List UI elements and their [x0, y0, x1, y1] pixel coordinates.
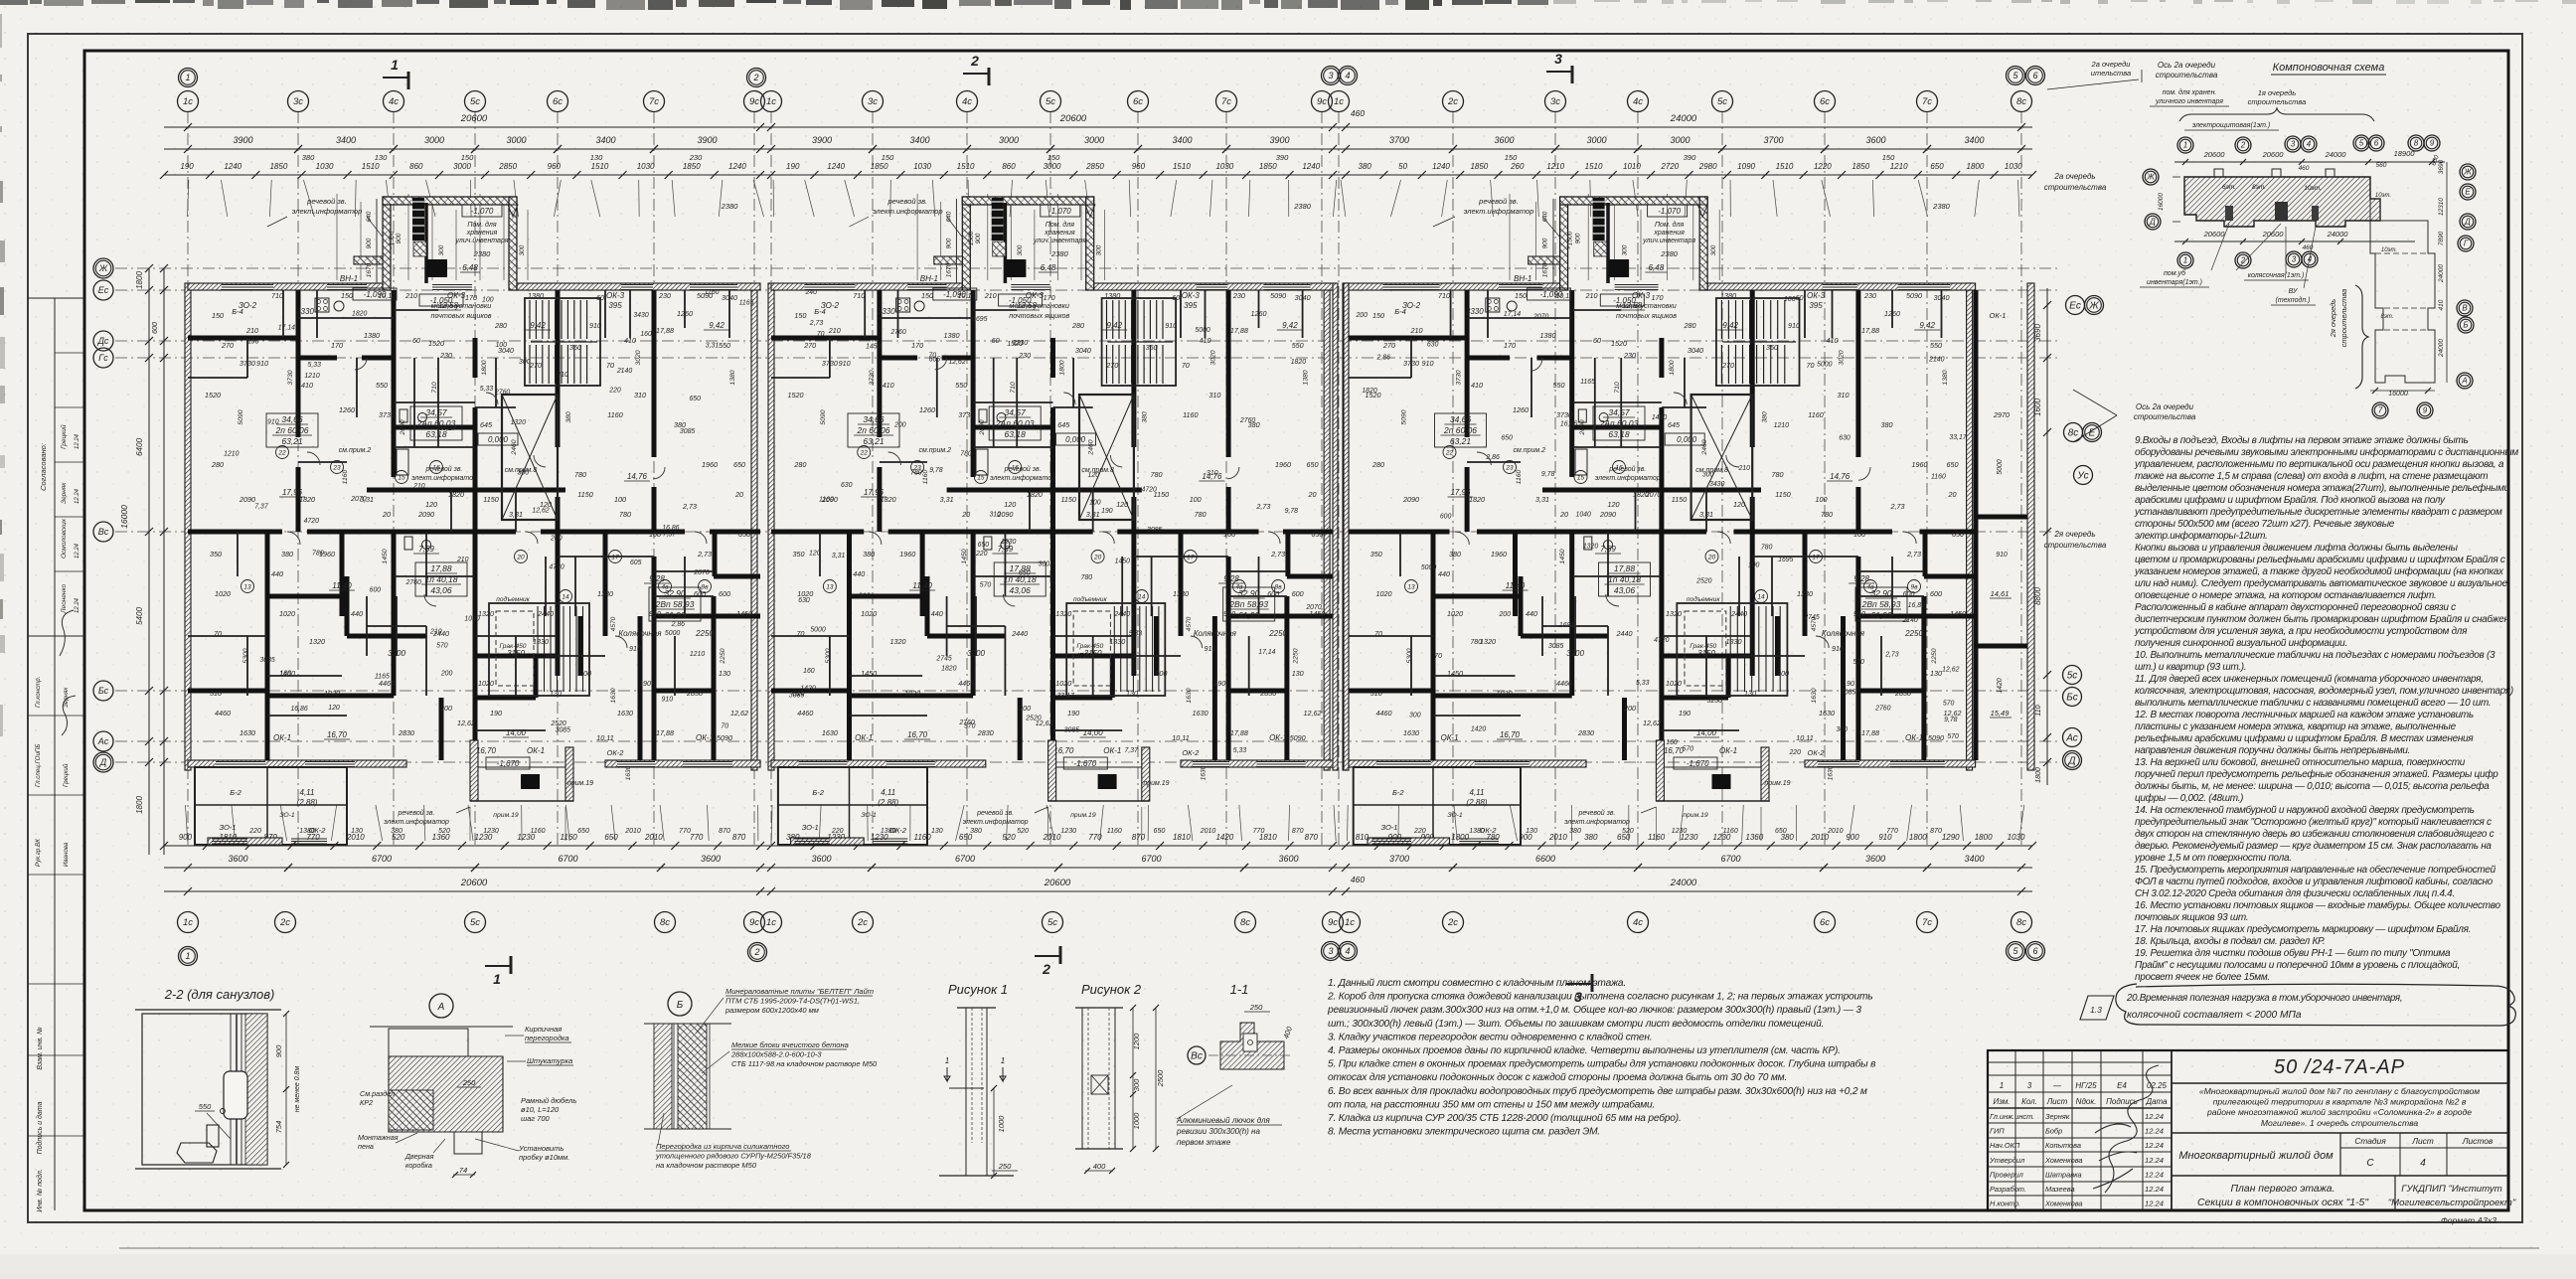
- svg-text:460: 460: [1351, 875, 1365, 884]
- svg-text:0,000: 0,000: [1065, 435, 1086, 444]
- svg-text:130: 130: [375, 153, 388, 162]
- bottom scan artifact line: [119, 1247, 2539, 1249]
- svg-text:380: 380: [1762, 411, 1769, 423]
- svg-text:Д: Д: [2149, 218, 2156, 227]
- svg-text:пластины с указанием номера эт: пластины с указанием номера этажа, кварт…: [2135, 721, 2457, 732]
- svg-text:Монтажная: Монтажная: [358, 1133, 399, 1142]
- svg-text:(2,88): (2,88): [878, 798, 898, 807]
- svg-text:6700: 6700: [558, 854, 577, 864]
- svg-text:2520: 2520: [1025, 716, 1041, 722]
- svg-text:Д: Д: [2067, 755, 2075, 766]
- svg-text:1040: 1040: [1576, 512, 1591, 519]
- svg-text:1510: 1510: [1776, 162, 1794, 171]
- svg-text:1330: 1330: [597, 589, 613, 598]
- svg-text:860: 860: [1002, 162, 1016, 171]
- svg-text:710: 710: [853, 291, 865, 300]
- svg-text:960: 960: [1132, 162, 1146, 171]
- svg-text:11,40: 11,40: [1506, 581, 1526, 590]
- svg-text:1850: 1850: [871, 162, 888, 171]
- svg-text:20: 20: [1308, 490, 1317, 499]
- svg-text:ОК-1: ОК-1: [1990, 311, 2007, 320]
- key plan left bubbles: [2143, 169, 2159, 185]
- svg-text:6эт.: 6эт.: [2222, 184, 2236, 191]
- svg-text:2,86: 2,86: [1485, 454, 1500, 461]
- svg-text:2140: 2140: [1928, 357, 1944, 364]
- svg-text:Гс: Гс: [98, 353, 108, 363]
- left vertical dim chain: [148, 268, 150, 855]
- section A porch storage room labels: [462, 205, 502, 217]
- svg-text:200: 200: [1776, 669, 1789, 678]
- svg-text:Б-2: Б-2: [812, 788, 824, 797]
- svg-text:2460: 2460: [511, 439, 518, 455]
- svg-text:2830: 2830: [1894, 689, 1911, 698]
- section B fixtures: [979, 409, 987, 422]
- svg-text:350: 350: [1766, 343, 1778, 352]
- svg-text:14,76: 14,76: [627, 472, 648, 481]
- svg-text:2380: 2380: [1050, 249, 1069, 258]
- key plan top dim row: [2174, 161, 2445, 163]
- svg-text:элект.информатор: элект.информатор: [1564, 819, 1630, 826]
- svg-text:1630: 1630: [617, 709, 633, 718]
- svg-text:2,86: 2,86: [671, 621, 686, 628]
- svg-text:12.24: 12.24: [75, 597, 80, 613]
- svg-text:33,17: 33,17: [1057, 693, 1075, 700]
- svg-text:3085: 3085: [680, 428, 695, 435]
- svg-text:Зерняк: Зерняк: [2045, 1112, 2070, 1121]
- svg-text:650: 650: [1154, 828, 1166, 835]
- svg-text:20.Временная полезная нагрузка: 20.Временная полезная нагрузка в том.убо…: [2126, 993, 2402, 1004]
- svg-text:Рисунок 2: Рисунок 2: [1081, 982, 1142, 997]
- svg-text:оборудованы речевыми звуковыми: оборудованы речевыми звуковыми электронн…: [2135, 446, 2518, 458]
- svg-text:2Вп 58,93: 2Вп 58,93: [655, 599, 695, 609]
- svg-text:2. Короб для пропуска стояка: 2. Короб для пропуска стояка дождевой ка…: [1327, 991, 1872, 1003]
- svg-text:10,11: 10,11: [1796, 733, 1813, 742]
- svg-text:910: 910: [267, 418, 279, 425]
- svg-text:200: 200: [1498, 611, 1511, 618]
- svg-text:Б-4: Б-4: [814, 307, 826, 316]
- svg-text:КР2: КР2: [360, 1098, 373, 1107]
- svg-text:1450: 1450: [736, 609, 752, 618]
- svg-text:9,78: 9,78: [1541, 471, 1555, 478]
- svg-text:63,21: 63,21: [1450, 436, 1472, 446]
- svg-text:150: 150: [1515, 291, 1527, 300]
- svg-text:410: 410: [1471, 381, 1483, 390]
- svg-text:-1,090: -1,090: [1539, 290, 1562, 299]
- svg-text:2440: 2440: [537, 609, 554, 618]
- svg-text:1850: 1850: [1470, 162, 1488, 171]
- svg-text:24000: 24000: [1670, 878, 1697, 888]
- svg-text:280: 280: [1071, 321, 1084, 330]
- svg-text:3040: 3040: [1934, 293, 1950, 302]
- svg-text:170: 170: [1504, 341, 1516, 350]
- section C thin partitions: [1594, 358, 1596, 447]
- svg-text:1810: 1810: [1173, 833, 1191, 842]
- svg-text:200: 200: [550, 535, 563, 542]
- svg-text:770: 770: [1886, 828, 1898, 835]
- svg-text:3200: 3200: [388, 649, 405, 658]
- svg-text:1420: 1420: [1215, 833, 1233, 842]
- svg-text:9с: 9с: [749, 917, 759, 928]
- svg-text:1320: 1320: [478, 609, 494, 618]
- svg-text:Н.контр.: Н.контр.: [1990, 1199, 2020, 1208]
- svg-text:710: 710: [431, 382, 438, 394]
- svg-text:ительства: ительства: [2091, 69, 2131, 78]
- svg-text:3040: 3040: [1075, 346, 1091, 355]
- svg-text:Установить: Установить: [518, 1144, 563, 1153]
- section A bottom porch black square: [521, 774, 540, 789]
- svg-text:380: 380: [970, 828, 982, 835]
- svg-text:20600: 20600: [1044, 878, 1071, 888]
- svg-text:речевой зв.: речевой зв.: [1578, 809, 1616, 817]
- svg-text:строительства: строительства: [2044, 183, 2107, 192]
- detail 2-2 box: [135, 1009, 281, 1011]
- svg-text:2Ап 60,03: 2Ап 60,03: [416, 418, 456, 428]
- svg-text:1030: 1030: [316, 162, 334, 171]
- svg-text:2я очередь: 2я очередь: [2329, 299, 2337, 339]
- svg-text:150: 150: [1882, 153, 1895, 162]
- svg-text:100: 100: [495, 342, 507, 349]
- svg-text:710: 710: [1438, 291, 1450, 300]
- svg-text:300: 300: [1039, 560, 1050, 567]
- svg-text:2720: 2720: [1660, 162, 1679, 171]
- svg-text:15: 15: [977, 475, 985, 482]
- svg-text:ФОЛ в части путей подходов, вх: ФОЛ в части путей подходов, входов и упр…: [2135, 876, 2494, 887]
- svg-text:9.Входы в подъезд, Входы в лиф: 9.Входы в подъезд, Входы в лифты на перв…: [2135, 434, 2468, 446]
- svg-text:диспетчерским пунктом должен б: диспетчерским пунктом должен быть промар…: [2135, 613, 2509, 625]
- svg-text:1160: 1160: [1107, 828, 1122, 835]
- svg-text:520: 520: [1017, 828, 1029, 835]
- svg-text:16,70: 16,70: [1500, 730, 1521, 739]
- svg-text:10,11: 10,11: [596, 733, 613, 742]
- svg-text:1380: 1380: [1720, 291, 1736, 300]
- svg-text:1я очередь: 1я очередь: [2258, 88, 2297, 97]
- svg-text:ВН-1: ВН-1: [920, 274, 938, 283]
- svg-text:Изм.: Изм.: [1993, 1097, 2010, 1106]
- svg-text:2850: 2850: [498, 162, 517, 171]
- svg-text:260: 260: [1510, 162, 1525, 171]
- svg-text:2Вп 58,93: 2Вп 58,93: [1861, 599, 1901, 609]
- svg-text:210: 210: [828, 326, 841, 335]
- svg-text:570: 570: [436, 643, 448, 650]
- svg-text:элект.информатор: элект.информатор: [873, 207, 943, 216]
- svg-text:9,42: 9,42: [1107, 321, 1123, 330]
- section A porch storage room labels: [1041, 205, 1080, 217]
- svg-text:650: 650: [738, 530, 750, 539]
- svg-text:должны быть, м, не менее: шири: должны быть, м, не менее: ширина — 0,010…: [2135, 780, 2490, 792]
- svg-text:2010: 2010: [644, 833, 663, 842]
- svg-text:410: 410: [1200, 336, 1211, 345]
- svg-text:70: 70: [1182, 361, 1190, 370]
- svg-text:230: 230: [439, 351, 452, 360]
- svg-text:ПТМ СТБ 1995-2009-Т4-DS(ТН)1-W: ПТМ СТБ 1995-2009-Т4-DS(ТН)1-WS1,: [725, 997, 860, 1006]
- section B bottom entrance porch: [1048, 740, 1056, 801]
- svg-text:2а очередь: 2а очередь: [2053, 172, 2095, 181]
- svg-text:3600: 3600: [228, 854, 247, 864]
- svg-text:2250: 2250: [1904, 629, 1923, 638]
- svg-text:"Могилевсельстройпроект": "Могилевсельстройпроект": [2388, 1198, 2516, 1208]
- svg-text:Гл.констр.: Гл.констр.: [35, 677, 42, 708]
- svg-text:130: 130: [1126, 689, 1138, 698]
- svg-text:23: 23: [332, 465, 341, 472]
- svg-text:645: 645: [1668, 420, 1681, 429]
- svg-text:1820: 1820: [1291, 359, 1306, 366]
- svg-text:900: 900: [179, 833, 193, 842]
- svg-text:2440: 2440: [1113, 609, 1130, 618]
- svg-text:Б-2: Б-2: [230, 788, 241, 797]
- svg-text:Г: Г: [2464, 240, 2469, 248]
- svg-text:2830: 2830: [398, 728, 414, 737]
- svg-text:ЗО-1: ЗО-1: [220, 823, 237, 832]
- svg-text:см.прим.8: см.прим.8: [505, 467, 538, 474]
- svg-text:630: 630: [1839, 435, 1851, 442]
- svg-text:строительства: строительства: [2156, 71, 2218, 80]
- svg-text:от пола, на расстоянии 350 мм: от пола, на расстоянии 350 мм от стены и…: [1328, 1098, 1655, 1110]
- svg-text:3600: 3600: [1278, 854, 1298, 864]
- svg-text:1330: 1330: [533, 637, 549, 646]
- svg-text:Лист: Лист: [2046, 1097, 2068, 1106]
- svg-text:20600: 20600: [460, 878, 488, 888]
- svg-text:направления движения поручни д: направления движения поручни должны быть…: [2135, 744, 2410, 756]
- svg-text:Гл.спец.ГОиПБ: Гл.спец.ГОиПБ: [35, 744, 42, 787]
- svg-text:600: 600: [370, 587, 382, 594]
- left side axis bubbles: [93, 258, 113, 278]
- svg-text:Иванова: Иванова: [63, 842, 70, 867]
- svg-text:3730: 3730: [287, 370, 294, 385]
- svg-text:1320: 1320: [890, 637, 906, 646]
- svg-text:ОК-1: ОК-1: [273, 733, 291, 742]
- svg-text:14,00: 14,00: [506, 728, 527, 737]
- svg-text:12.24: 12.24: [2145, 1170, 2164, 1179]
- section C level mark: [1665, 433, 1704, 445]
- svg-text:60: 60: [1172, 293, 1180, 302]
- svg-text:5400: 5400: [135, 607, 144, 625]
- svg-text:17,88: 17,88: [1861, 728, 1879, 737]
- section C bottom exterior wall: [1346, 760, 1586, 767]
- svg-text:8с: 8с: [2068, 427, 2079, 438]
- svg-text:колясочная(1эт.): колясочная(1эт.): [2248, 272, 2305, 279]
- svg-text:5090: 5090: [1928, 733, 1944, 742]
- svg-text:9с: 9с: [1328, 917, 1338, 928]
- svg-text:2с: 2с: [1447, 96, 1458, 107]
- svg-text:300: 300: [1017, 244, 1024, 255]
- svg-text:650: 650: [1947, 460, 1959, 469]
- svg-text:1380: 1380: [528, 291, 544, 300]
- section C bottom appendage windows: [1371, 838, 1411, 840]
- svg-text:120: 120: [1733, 500, 1745, 509]
- svg-text:7с: 7с: [1922, 917, 1932, 928]
- svg-text:3730: 3730: [240, 359, 255, 368]
- detail A circle: [429, 994, 453, 1018]
- svg-text:1820: 1820: [448, 490, 464, 499]
- svg-text:12,62: 12,62: [948, 359, 965, 366]
- svg-text:230: 230: [1623, 351, 1636, 360]
- svg-text:устанавливают предупредительны: устанавливают предупредительные дискретн…: [2134, 507, 2502, 518]
- svg-text:1520: 1520: [205, 391, 221, 400]
- svg-text:2,73: 2,73: [1906, 550, 1921, 559]
- svg-text:-1,070: -1,070: [471, 207, 494, 216]
- svg-text:12,62: 12,62: [457, 719, 475, 727]
- svg-text:Бобр: Бобр: [2045, 1127, 2062, 1136]
- svg-text:1020: 1020: [1447, 609, 1463, 618]
- svg-text:1695: 1695: [972, 316, 987, 323]
- section A entrance porch walls: [962, 197, 970, 290]
- svg-text:12.24: 12.24: [75, 543, 80, 559]
- svg-text:1: 1: [2183, 256, 2187, 265]
- svg-text:7,37: 7,37: [663, 531, 678, 538]
- svg-text:16,86: 16,86: [290, 706, 307, 713]
- svg-text:Нач.ОКП: Нач.ОКП: [1990, 1141, 2020, 1150]
- svg-text:почтовых ящиков: почтовых ящиков: [1616, 311, 1677, 320]
- svg-text:1: 1: [391, 57, 399, 73]
- svg-text:350: 350: [793, 550, 805, 559]
- svg-text:2010: 2010: [1810, 833, 1829, 842]
- svg-text:ОК-1: ОК-1: [1905, 733, 1923, 742]
- svg-text:2,73: 2,73: [1255, 502, 1270, 511]
- svg-text:просвет ячеек не более 15мм.: просвет ячеек не более 15мм.: [2135, 971, 2270, 983]
- svg-text:3с: 3с: [1550, 96, 1560, 107]
- svg-text:220: 220: [975, 551, 988, 558]
- svg-text:-1,670: -1,670: [1687, 759, 1709, 768]
- svg-text:380: 380: [1142, 411, 1149, 423]
- svg-text:2380: 2380: [721, 202, 739, 211]
- svg-text:предупредительный знак "Осторо: предупредительный знак "Осторожно (желты…: [2135, 817, 2492, 828]
- svg-text:строительства: строительства: [2339, 289, 2348, 348]
- svg-text:1020: 1020: [1055, 679, 1071, 688]
- svg-text:9,78: 9,78: [1944, 717, 1958, 723]
- svg-text:1: 1: [185, 951, 190, 961]
- svg-text:3150: 3150: [507, 649, 525, 658]
- svg-text:1. Данный лист смотри совмес: 1. Данный лист смотри совместно с кладоч…: [1328, 978, 1626, 989]
- svg-text:9,42: 9,42: [709, 321, 724, 330]
- svg-text:650: 650: [689, 396, 701, 402]
- svg-text:6700: 6700: [1141, 854, 1161, 864]
- svg-text:410: 410: [1827, 336, 1839, 345]
- svg-text:520: 520: [1622, 828, 1634, 835]
- svg-text:ОК-1: ОК-1: [1440, 733, 1458, 742]
- svg-text:2250: 2250: [720, 648, 726, 664]
- svg-text:12,62: 12,62: [1643, 719, 1661, 727]
- svg-text:350: 350: [569, 343, 581, 352]
- svg-text:120: 120: [328, 705, 340, 712]
- svg-text:7с: 7с: [1922, 96, 1932, 107]
- svg-text:получения синхронной визуально: получения синхронной визуальной информац…: [2135, 637, 2347, 649]
- svg-text:780: 780: [1470, 639, 1482, 646]
- svg-text:Формат А3х3: Формат А3х3: [2441, 1215, 2496, 1225]
- svg-text:20600: 20600: [2203, 230, 2226, 239]
- svg-text:910: 910: [1223, 609, 1235, 618]
- svg-text:250: 250: [1249, 1003, 1263, 1012]
- svg-text:6. Во всех ванных для прокла: 6. Во всех ванных для прокладки водопров…: [1328, 1085, 1867, 1097]
- scanner edge noise top: [0, 0, 28, 5]
- svg-text:12.24: 12.24: [2145, 1141, 2164, 1150]
- svg-text:3: 3: [2027, 1081, 2032, 1090]
- svg-text:9в: 9в: [1910, 584, 1918, 591]
- svg-text:74: 74: [459, 1166, 467, 1175]
- svg-text:инвентаря(1эт.): инвентаря(1эт.): [2147, 279, 2202, 286]
- svg-text:Ж: Ж: [2146, 173, 2155, 182]
- svg-text:910: 910: [1996, 552, 2008, 559]
- svg-text:190: 190: [1213, 679, 1225, 688]
- section A porch black square (mail/elec): [427, 259, 447, 277]
- svg-text:0,000: 0,000: [1677, 435, 1697, 444]
- svg-text:1020: 1020: [215, 589, 231, 598]
- svg-text:16,70: 16,70: [1053, 746, 1074, 755]
- section B door openings: [888, 452, 901, 465]
- section A bottom wing rooms: [195, 767, 347, 845]
- svg-text:5090: 5090: [1401, 409, 1408, 424]
- svg-text:20: 20: [516, 555, 525, 561]
- svg-text:4460: 4460: [215, 709, 231, 718]
- svg-text:1630: 1630: [625, 765, 632, 780]
- svg-text:1670: 1670: [366, 262, 373, 277]
- svg-text:220: 220: [831, 828, 844, 835]
- svg-text:7,69: 7,69: [998, 545, 1014, 554]
- left margin lower table: [54, 636, 56, 1210]
- svg-text:3040: 3040: [722, 293, 737, 302]
- svg-text:640: 640: [366, 211, 373, 222]
- svg-text:170: 170: [911, 341, 923, 350]
- svg-text:Пом. для: Пом. для: [467, 221, 496, 229]
- svg-text:1960: 1960: [1491, 550, 1507, 559]
- svg-text:380: 380: [1569, 828, 1581, 835]
- svg-text:3400: 3400: [336, 135, 356, 145]
- svg-text:3400: 3400: [1964, 135, 1984, 145]
- svg-text:колясочной составляет < 2000 М: колясочной составляет < 2000 МПа: [2127, 1010, 2302, 1021]
- svg-text:Стадия: Стадия: [2354, 1136, 2386, 1146]
- svg-text:3400: 3400: [1172, 135, 1192, 145]
- svg-text:указанием номеров этажей, а та: указанием номеров этажей, а также другой…: [2134, 565, 2504, 577]
- svg-text:5300: 5300: [825, 648, 832, 663]
- svg-text:2140: 2140: [1901, 617, 1917, 624]
- svg-text:-1,090: -1,090: [364, 290, 387, 299]
- svg-text:1040: 1040: [464, 616, 479, 623]
- svg-text:4,11: 4,11: [300, 788, 315, 797]
- svg-text:3730: 3730: [1403, 359, 1419, 368]
- svg-text:5000: 5000: [1817, 361, 1832, 368]
- svg-text:1210: 1210: [690, 651, 705, 658]
- svg-text:645: 645: [480, 420, 493, 429]
- svg-text:перегородка: перегородка: [525, 1034, 569, 1042]
- svg-text:Прайм" с несущими полосами и п: Прайм" с несущими полосами и поперечной …: [2135, 960, 2460, 971]
- section C porch extension lines: [1509, 194, 1511, 280]
- svg-text:310: 310: [1207, 470, 1218, 477]
- section B windows bottom: [799, 761, 848, 766]
- svg-text:строительства: строительства: [2044, 541, 2107, 550]
- section B windows top: [804, 284, 855, 289]
- svg-text:2760: 2760: [1239, 417, 1255, 424]
- svg-text:130: 130: [931, 828, 943, 835]
- svg-text:1960: 1960: [1275, 460, 1291, 469]
- svg-text:9,78: 9,78: [1285, 508, 1299, 515]
- svg-text:10,11: 10,11: [1172, 733, 1189, 742]
- svg-text:150: 150: [1372, 311, 1384, 320]
- svg-text:120: 120: [425, 500, 437, 509]
- svg-text:электрощитовая(1эт.): электрощитовая(1эт.): [2192, 122, 2270, 129]
- svg-text:уличного инвентаря: уличного инвентаря: [2155, 98, 2223, 105]
- svg-text:Ес: Ес: [98, 285, 109, 295]
- svg-text:1220: 1220: [1814, 162, 1832, 171]
- svg-text:1150: 1150: [1775, 490, 1790, 499]
- svg-text:100: 100: [649, 530, 661, 539]
- svg-text:управлением, расположенными по: управлением, расположенными по вертикаль…: [2134, 459, 2504, 470]
- svg-text:1230: 1230: [1672, 828, 1688, 835]
- svg-text:600: 600: [719, 589, 730, 598]
- left margin squiggle signatures: [60, 610, 76, 735]
- svg-text:120: 120: [1004, 500, 1016, 509]
- svg-text:570: 570: [1943, 701, 1955, 708]
- svg-text:ЗО-1: ЗО-1: [279, 812, 295, 819]
- svg-text:3900: 3900: [233, 135, 252, 145]
